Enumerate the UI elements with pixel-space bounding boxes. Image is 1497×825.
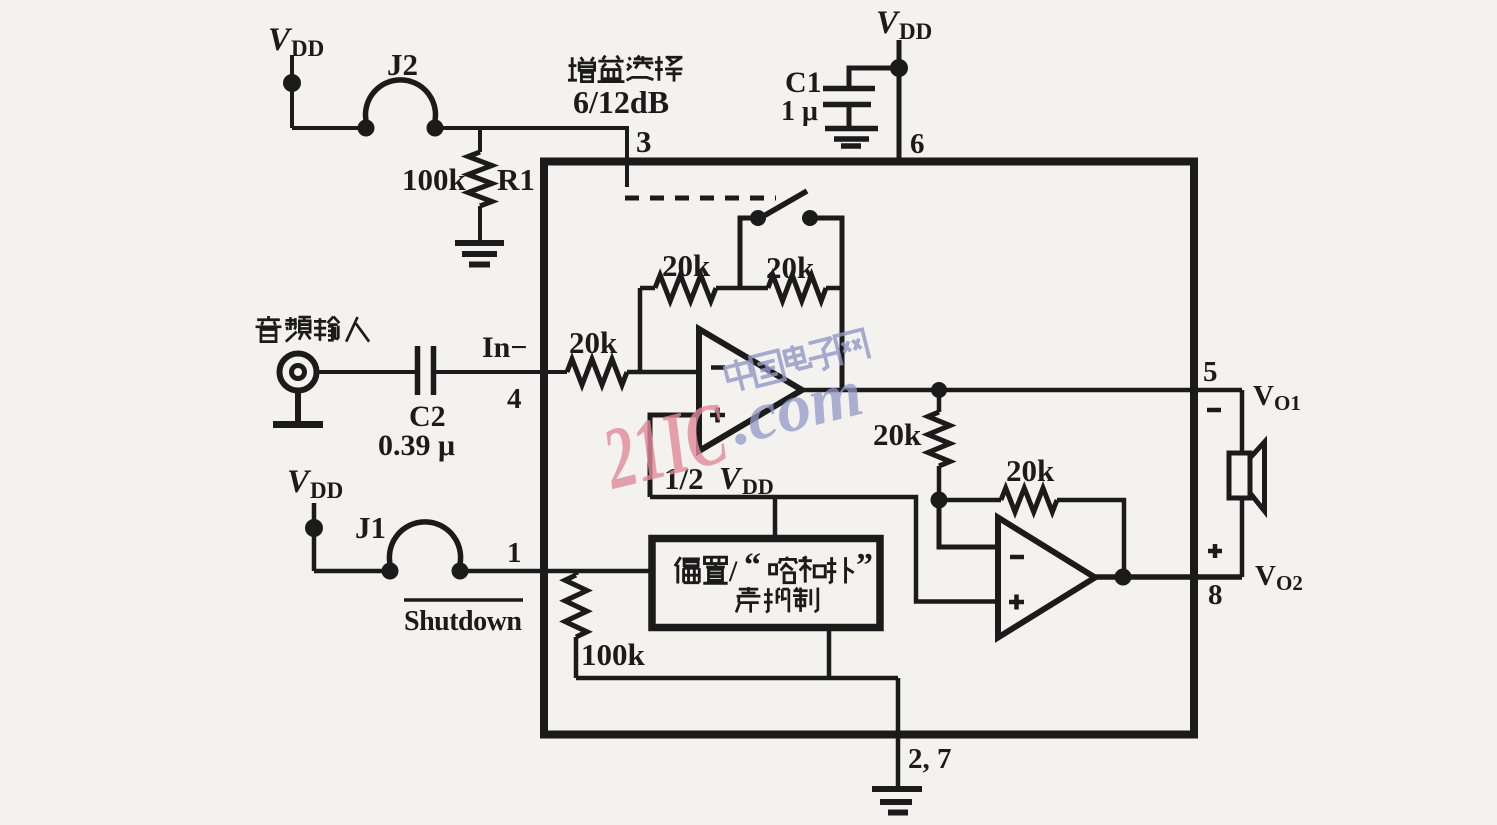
wire VO1 down to speaker <box>1240 390 1245 453</box>
op-amp U1A minus sign <box>711 365 725 370</box>
pin 6 label <box>910 128 925 160</box>
label 100k R1 <box>402 162 535 197</box>
pin 5 label <box>1203 356 1218 388</box>
svg-text:8: 8 <box>1208 579 1223 611</box>
svg-text:O2: O2 <box>1276 571 1303 595</box>
wire feedback left leg down <box>638 288 643 372</box>
op-amp U1A plus sign <box>710 408 725 423</box>
svg-text:J2: J2 <box>387 47 418 82</box>
wire 20k fb2 to output2 <box>1057 500 1124 577</box>
svg-text:20k: 20k <box>569 325 618 360</box>
VDD supply label top-right <box>876 5 932 44</box>
switch contact right dot <box>802 210 818 226</box>
svg-text:4: 4 <box>507 383 522 415</box>
pin 3 dashed gain-select line <box>625 196 776 201</box>
wire half-VDD rail <box>650 497 998 602</box>
label 20k A <box>662 248 711 283</box>
wire 20k to op-amp inverting input <box>627 370 699 375</box>
svg-text:Shutdown: Shutdown <box>404 606 522 637</box>
svg-text:20k: 20k <box>1006 453 1055 488</box>
wire C2 to pin 4 <box>434 370 568 374</box>
pin 1 label <box>507 537 522 569</box>
ground under C1 <box>825 129 878 147</box>
connector audio jack <box>280 354 317 391</box>
resistor 100k shutdown <box>565 571 587 637</box>
plus polarity label <box>1208 544 1222 558</box>
wire non-inverting input to rail <box>650 415 699 497</box>
op-amp U1B <box>998 518 1095 638</box>
svg-text:J1: J1 <box>355 510 386 545</box>
label gain select (CJK) <box>568 56 682 82</box>
VDD supply label top-left <box>268 22 324 61</box>
svg-text:/: / <box>728 555 738 588</box>
switch contact left dot <box>750 210 766 226</box>
wire 20k mid stub top <box>937 390 942 412</box>
wire op-amp2 output to VO2 <box>1095 574 1242 580</box>
watermark 21IC <box>593 385 737 509</box>
label audio input (CJK) <box>256 316 370 342</box>
svg-text:100k: 100k <box>402 162 467 197</box>
jumper J2 <box>366 80 436 125</box>
svg-text:”: ” <box>856 547 873 584</box>
resistor 20k input <box>567 359 627 385</box>
svg-text:C1: C1 <box>785 66 822 99</box>
svg-text:20k: 20k <box>873 417 922 452</box>
switch S1 arm <box>755 191 807 221</box>
IC package box U1 <box>544 162 1194 735</box>
label J2 <box>387 47 418 82</box>
wire between 20k A and B <box>716 286 768 291</box>
label VO1 <box>1253 380 1301 415</box>
label 0.39u <box>378 429 455 462</box>
wire pin 2,7 to ground <box>896 678 901 787</box>
wire 20k B to right leg <box>826 286 842 291</box>
resistor 20k mid <box>928 412 950 466</box>
pin 8 label <box>1208 579 1223 611</box>
svg-text:V: V <box>268 22 293 58</box>
svg-text:DD: DD <box>291 36 324 61</box>
minus polarity label <box>1207 408 1221 413</box>
node output1 dot <box>931 382 947 398</box>
svg-text:DD: DD <box>742 474 774 499</box>
svg-text:0.39 μ: 0.39 μ <box>378 429 455 462</box>
bias box B1 <box>652 539 880 628</box>
node output2 dot <box>1115 569 1132 586</box>
svg-text:6: 6 <box>910 128 925 160</box>
wire J2 to pin3 corner <box>435 128 627 187</box>
node VDD3 dot <box>305 519 323 537</box>
label 20k mid <box>873 417 922 452</box>
wire mid dot to 20k fb2 <box>939 498 1001 503</box>
label VO2 <box>1255 560 1303 595</box>
label 100k shutdown <box>581 637 646 672</box>
svg-text:2, 7: 2, 7 <box>908 743 952 775</box>
svg-text:V: V <box>876 5 901 41</box>
resistor 20k feedback A <box>655 275 716 301</box>
label 20k B <box>766 250 815 285</box>
label J1 <box>355 510 386 545</box>
svg-text:“: “ <box>744 547 761 584</box>
label Shutdown with overline <box>404 606 522 637</box>
wire op-amp1 output to VO1 <box>802 388 1242 393</box>
svg-text:1: 1 <box>507 537 522 569</box>
pin 3 label <box>636 124 652 159</box>
VDD supply label for J1 <box>287 464 343 503</box>
op-amp U1A <box>699 329 802 451</box>
wire feedback rail left <box>640 286 655 291</box>
ground under R1 <box>455 243 504 265</box>
wire 100k to bottom rail <box>574 637 579 678</box>
label bias box line2 (CJK) <box>736 587 818 613</box>
jumper J1 <box>389 522 460 568</box>
wire VDD1 to J2 <box>292 126 366 130</box>
wire jack to C2 <box>316 370 415 374</box>
label 6/12dB <box>573 84 669 120</box>
wire C1 branch <box>849 68 899 86</box>
wire VDD3 to J1 <box>314 569 390 574</box>
svg-text:In−: In− <box>482 331 527 364</box>
svg-text:6/12dB: 6/12dB <box>573 84 669 120</box>
speaker LS1 <box>1229 442 1265 511</box>
label 1u <box>781 96 818 127</box>
svg-text:1 μ: 1 μ <box>781 96 818 127</box>
ground bottom <box>872 789 922 813</box>
wire R1 top stub <box>478 128 482 152</box>
wire VDD3 stub <box>312 503 317 571</box>
capacitor C1 <box>823 89 875 105</box>
pin 2,7 label <box>908 743 952 775</box>
label 20k feedback2 <box>1006 453 1055 488</box>
resistor 20k feedback2 <box>1001 488 1057 512</box>
resistor 20k feedback B <box>768 275 826 301</box>
pin 4 label <box>507 383 522 415</box>
wire switch left leg <box>740 218 758 288</box>
svg-text:5: 5 <box>1203 356 1218 388</box>
wire bottom rail <box>576 676 898 681</box>
label In- <box>482 331 527 364</box>
svg-text:.com: .com <box>721 353 869 459</box>
wire switch right leg <box>810 218 842 390</box>
wire VDD2 to pin 6 <box>897 40 902 161</box>
node mid dot <box>931 492 948 509</box>
node VDD1 dot <box>283 74 301 92</box>
resistor R1 100k <box>468 152 492 206</box>
svg-text:V: V <box>287 464 312 500</box>
wire VDD1 stub <box>290 55 294 128</box>
label bias box line1 (CJK) <box>675 547 873 588</box>
svg-text:DD: DD <box>310 478 343 503</box>
svg-text:V: V <box>1255 560 1276 592</box>
wire J1 to bias box pin 1 <box>460 569 652 574</box>
op-amp U1B plus sign <box>1009 595 1024 610</box>
svg-text:3: 3 <box>636 124 652 159</box>
svg-text:DD: DD <box>899 19 932 44</box>
label C2 <box>409 400 446 433</box>
wire mid dot to op-amp2 inverting <box>939 500 998 547</box>
wire speaker to VO2 <box>1240 498 1245 577</box>
label C1 <box>785 66 822 99</box>
watermark .com <box>721 353 869 459</box>
svg-text:20k: 20k <box>766 250 815 285</box>
svg-text:V: V <box>1253 380 1274 412</box>
svg-text:O1: O1 <box>1274 391 1301 415</box>
wire R1 bottom <box>478 206 482 242</box>
wire jack stub ground <box>295 391 301 424</box>
op-amp U1B minus sign <box>1010 555 1024 560</box>
svg-text:R1: R1 <box>497 162 535 197</box>
wire C1 to ground <box>847 107 852 126</box>
capacitor C2 <box>418 346 434 395</box>
svg-text:20k: 20k <box>662 248 711 283</box>
wire 20k mid stub bottom <box>937 466 942 500</box>
ground bar under jack <box>273 421 323 428</box>
svg-text:100k: 100k <box>581 637 646 672</box>
wire bias box bottom stub <box>827 631 832 678</box>
label 1/2 VDD <box>664 460 774 499</box>
node VDD2 dot <box>890 59 908 77</box>
svg-text:21IC: 21IC <box>593 385 737 509</box>
label 20k input <box>569 325 618 360</box>
wire rail stub to bias box <box>773 497 778 537</box>
watermark cn text (CJK) <box>724 328 870 393</box>
